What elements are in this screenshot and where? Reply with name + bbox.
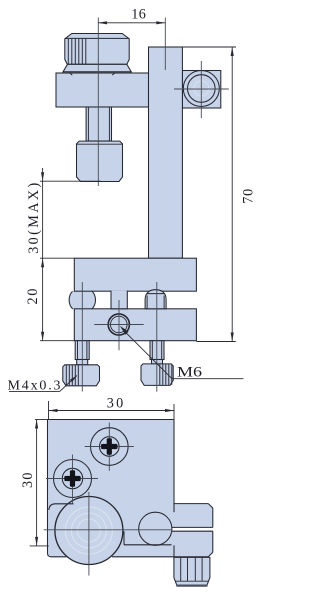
svg-text:16: 16 xyxy=(131,7,146,23)
svg-text:30(MAX): 30(MAX) xyxy=(26,183,42,254)
svg-text:70: 70 xyxy=(240,189,256,204)
svg-text:30: 30 xyxy=(107,395,124,411)
svg-text:20: 20 xyxy=(25,289,41,305)
svg-text:M4x0.3: M4x0.3 xyxy=(8,379,61,394)
svg-text:M6: M6 xyxy=(177,365,203,381)
svg-text:30: 30 xyxy=(20,473,36,489)
